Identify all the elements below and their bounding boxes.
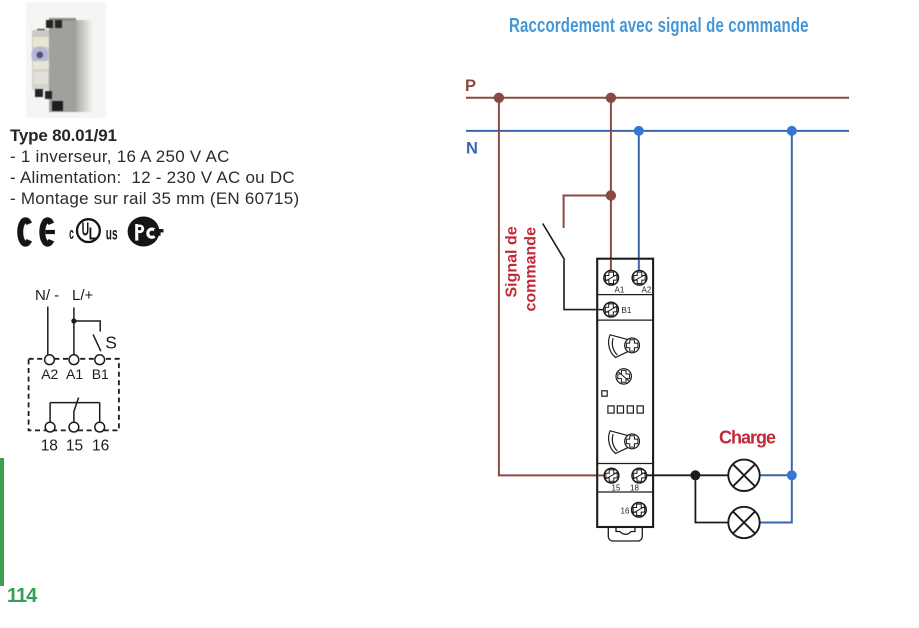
heading Type 80.01/91	[10, 126, 117, 146]
certification marks CE cULus PCT	[10, 212, 180, 252]
CE mark letter E	[42, 220, 55, 243]
lamp 1	[728, 460, 759, 491]
relay module body	[597, 259, 653, 527]
svg-text:P: P	[465, 77, 476, 95]
wire N vertical	[47, 307, 49, 355]
wire junction to lamp2	[695, 475, 728, 522]
screw terminal 16	[632, 503, 647, 518]
junction P mid	[606, 93, 616, 103]
svg-text:18: 18	[630, 484, 639, 493]
PCT mark	[128, 217, 164, 247]
switch signal arm	[543, 224, 565, 260]
contact leg 18	[49, 403, 51, 423]
wire switch to B1	[564, 260, 606, 310]
dip squares	[608, 406, 643, 413]
terminal B1	[95, 355, 105, 365]
wire N drop right	[760, 131, 792, 523]
wire P bus	[466, 97, 849, 99]
junction on L	[71, 318, 76, 323]
svg-text:A2: A2	[41, 366, 58, 382]
diagram title	[509, 15, 809, 38]
svg-text:15: 15	[612, 484, 621, 493]
wire P drop left	[499, 98, 604, 476]
dial 2	[616, 369, 631, 384]
wire branch to switch	[74, 321, 100, 332]
svg-text:B1: B1	[92, 366, 109, 382]
wire stub into B1	[598, 309, 606, 311]
CE mark letter C	[20, 220, 29, 243]
module separator 2	[597, 319, 653, 321]
junction lamp1 N	[787, 470, 797, 480]
svg-text:16: 16	[92, 438, 109, 455]
wire 18 to junction	[647, 474, 696, 476]
green sidebar	[0, 458, 4, 586]
junction charge	[690, 470, 700, 480]
page number 114	[7, 585, 36, 608]
spec line 1	[10, 147, 230, 167]
svg-text:Charge: Charge	[719, 428, 776, 448]
label Signal de commande	[504, 226, 540, 311]
module separator 4	[597, 491, 653, 493]
terminal A2	[45, 355, 55, 365]
knob 3	[609, 431, 640, 454]
wire N bus	[466, 130, 849, 132]
lamp 2	[728, 507, 759, 538]
screw terminal A2	[632, 271, 647, 286]
junction signal tap	[606, 190, 616, 200]
svg-text:Signal de: Signal de	[504, 226, 521, 297]
wire N drop to A2	[638, 131, 640, 271]
wire stub into A1	[610, 260, 612, 272]
svg-text:A1: A1	[615, 286, 625, 295]
wire stub into 15	[598, 474, 606, 476]
spec line 2	[10, 168, 295, 188]
svg-text:16: 16	[621, 507, 630, 516]
junction N right	[787, 126, 797, 136]
wire lamp1 to N	[760, 474, 792, 476]
spec line 3	[10, 189, 299, 209]
contact leg 16	[99, 403, 101, 423]
cULus mark	[69, 219, 117, 244]
indicator square	[602, 391, 607, 396]
svg-text:commande: commande	[523, 227, 540, 312]
module separator 3	[597, 463, 653, 465]
screw terminal A1	[604, 271, 619, 286]
terminal 15	[69, 422, 79, 432]
knob 1	[609, 335, 640, 358]
svg-text:A2: A2	[642, 286, 652, 295]
junction N mid	[634, 126, 644, 136]
screw terminal 18	[632, 468, 647, 483]
svg-text:c: c	[69, 224, 74, 243]
svg-text:N: N	[466, 140, 478, 158]
svg-text:N/ -: N/ -	[35, 287, 59, 304]
contact crossbar	[50, 402, 100, 404]
wire junction to lamp1	[695, 474, 728, 476]
terminal A1	[69, 355, 79, 365]
product photo: relay module	[26, 2, 106, 118]
dashed terminal box	[29, 359, 119, 431]
wire signal branch	[564, 196, 611, 229]
module separator 1	[597, 294, 653, 296]
wire L vertical	[73, 308, 75, 355]
svg-text:us: us	[106, 225, 118, 245]
svg-text:15: 15	[66, 438, 83, 455]
svg-text:B1: B1	[622, 306, 632, 315]
terminal 18	[45, 422, 55, 432]
svg-text:A1: A1	[66, 366, 83, 382]
svg-text:L: L	[89, 225, 97, 244]
svg-text:L/+: L/+	[72, 287, 94, 304]
left terminal schematic	[22, 283, 128, 457]
svg-text:S: S	[105, 333, 117, 353]
junction P left	[494, 93, 504, 103]
wire P drop to A1	[610, 98, 612, 271]
screw terminal B1	[604, 302, 619, 317]
contact common arm 15	[74, 398, 79, 423]
wire stub into A2	[638, 260, 640, 272]
terminal 16	[95, 422, 105, 432]
module bottom clip	[608, 527, 642, 541]
screw terminal 15	[604, 468, 619, 483]
switch S arm	[93, 334, 101, 351]
svg-text:18: 18	[41, 438, 58, 455]
